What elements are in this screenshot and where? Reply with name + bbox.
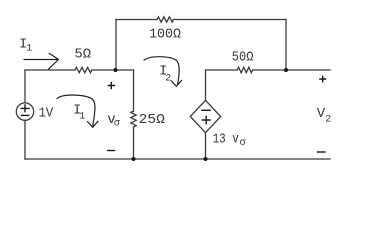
junction node bottom 25Ω branch [132,157,136,161]
junction node bottom dependent source branch [204,157,208,161]
wire top loop with 100 ohm [116,19,157,21]
wire right vertical of top loop [285,20,287,71]
wire mid segment to 25 ohm branch [92,69,134,71]
resistor 100Ω [157,17,174,22]
current arrow I1 curved [57,95,98,127]
wire 25 ohm branch lower [133,127,135,159]
resistor 50Ω [237,67,252,72]
wire bottom rail [25,158,330,160]
svg-text:50Ω: 50Ω [232,50,254,66]
wire mid left segment [25,69,75,71]
label I2 [159,64,171,85]
label I1 mesh current [73,103,85,123]
polarity plus of vσ [108,82,115,89]
label I1 at input [19,37,32,55]
label V2 output voltage [317,106,331,125]
polarity minus inside source V1 [21,114,30,116]
wire mid right segment to open terminal [253,69,330,71]
svg-text:1: 1 [26,43,32,54]
svg-text:1V: 1V [39,106,54,122]
svg-text:100Ω: 100Ω [149,27,181,43]
polarity minus of vσ [107,150,115,152]
label vσ across 25Ω [107,112,120,129]
value label 13vσ of dependent source [213,131,246,149]
polarity minus inside dependent source [201,109,211,111]
resistor 25Ω [131,111,136,127]
svg-text:σ: σ [240,138,246,149]
wire top right segment [174,19,287,21]
current arrow I2 curved [144,57,182,87]
polarity minus of V2 [317,151,326,153]
current arrow I1 at input [24,53,59,69]
svg-text:σ: σ [114,119,120,130]
svg-text:1: 1 [79,112,85,123]
wire left branch lower [24,120,26,159]
svg-text:5Ω: 5Ω [75,46,92,62]
wire dependent source branch upper [205,70,207,100]
svg-text:2: 2 [325,115,331,126]
polarity plus of V2 [319,76,326,83]
polarity plus inside source V1 [21,104,30,112]
resistor 5Ω [75,67,92,72]
voltage source V1 1V circle [16,103,33,120]
wire mid right segment left part [206,69,238,71]
junction node at 50Ω right [284,68,288,72]
junction node after 5Ω [114,68,118,72]
wire dependent source branch lower [205,133,207,159]
wire left branch upper [24,70,26,103]
svg-text:25Ω: 25Ω [139,112,165,128]
polarity plus inside dependent source [202,116,211,125]
dependent source U1 diamond 13vσ [190,100,220,132]
wire 25 ohm branch upper [133,70,135,111]
svg-text:2: 2 [165,74,171,85]
svg-text:13 v: 13 v [213,131,239,147]
wire left vertical of top loop [115,20,117,71]
